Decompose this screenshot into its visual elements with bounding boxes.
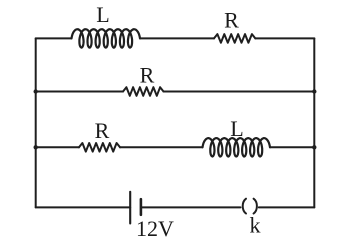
wire top-left to L xyxy=(36,37,72,39)
junction node left branch3 xyxy=(34,145,38,149)
wire branch2 left xyxy=(36,91,123,93)
junction node right branch3 xyxy=(312,145,316,149)
switch k right contact xyxy=(254,199,257,214)
junction node right branch2 xyxy=(312,89,316,93)
svg-text:R: R xyxy=(95,118,110,143)
wire right edge xyxy=(313,38,315,207)
wire branch3 middle xyxy=(120,146,203,148)
wire battery to switch xyxy=(142,206,241,208)
wire R to top-right corner xyxy=(255,37,314,39)
svg-text:R: R xyxy=(224,8,239,33)
resistor R1 xyxy=(214,34,255,43)
wire left edge xyxy=(35,38,37,207)
inductor L2 xyxy=(203,138,271,156)
battery negative plate xyxy=(140,199,143,215)
wire switch to bottom-right xyxy=(259,206,315,208)
svg-text:k: k xyxy=(250,213,261,238)
battery positive plate xyxy=(129,192,131,224)
inductor L1 xyxy=(72,29,141,47)
resistor R2 xyxy=(123,87,164,96)
switch k left contact xyxy=(243,199,246,214)
junction node left branch2 xyxy=(34,89,38,93)
wire bottom-left to battery xyxy=(36,206,131,208)
svg-text:R: R xyxy=(140,63,155,88)
svg-text:12V: 12V xyxy=(136,216,174,241)
wire L to R top xyxy=(140,37,214,39)
wire branch3 left xyxy=(36,146,79,148)
wire branch2 right xyxy=(164,91,315,93)
wire branch3 right xyxy=(270,146,314,148)
svg-text:L: L xyxy=(230,116,243,141)
svg-text:L: L xyxy=(96,2,109,27)
resistor R3 xyxy=(79,143,120,152)
